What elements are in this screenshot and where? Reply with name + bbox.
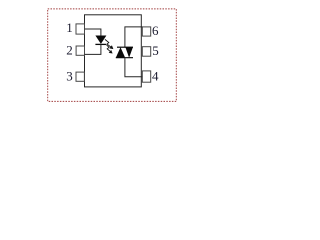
wire bilateral switch bottom to pin4	[125, 58, 142, 77]
pin 6 pad	[142, 27, 150, 36]
pin 4 pad	[142, 71, 150, 82]
svg-text:1: 1	[66, 20, 73, 35]
pin 1 pad	[76, 24, 85, 34]
svg-text:4: 4	[152, 69, 159, 84]
light arrow 1	[105, 39, 114, 49]
wire pin6 to bilateral switch top	[125, 27, 142, 47]
wire LED cathode to pin2	[85, 44, 101, 54]
pin 2 pad	[76, 46, 84, 55]
package body U1 (6-pin DIP outline)	[85, 15, 142, 87]
wire pin1 to LED anode	[85, 29, 101, 36]
pin 3 pad	[76, 72, 84, 81]
bilateral switch (triac/diac) top rail	[117, 46, 133, 48]
svg-text:2: 2	[66, 43, 73, 58]
bilateral switch bottom rail	[116, 57, 133, 59]
svg-text:5: 5	[152, 43, 159, 58]
pin 5 pad	[142, 47, 150, 57]
triac right triangle (points down)	[125, 47, 132, 58]
dashed red selection border	[48, 9, 177, 102]
triac left triangle (points up)	[116, 47, 125, 58]
svg-text:3: 3	[66, 69, 73, 84]
LED cathode bar	[95, 43, 106, 45]
LED D1 triangle (anode)	[95, 36, 106, 44]
svg-text:6: 6	[152, 23, 159, 38]
light arrow 2	[107, 45, 113, 53]
